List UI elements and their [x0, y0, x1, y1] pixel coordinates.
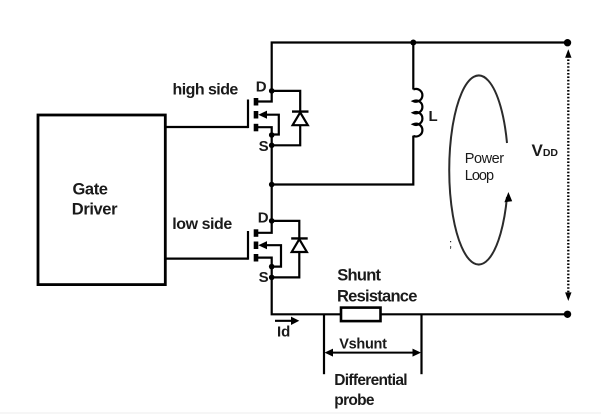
D1 triangle	[293, 112, 308, 125]
transistor Q1 (high side MOSFET)	[248, 79, 279, 155]
svg-text:D: D	[256, 79, 267, 96]
wire bottom rail right of shunt	[381, 313, 568, 315]
svg-text:Id: Id	[277, 324, 290, 341]
Q2 gate line	[247, 231, 249, 260]
svg-text:probe: probe	[334, 392, 375, 409]
Vshunt measurement ticks	[323, 314, 325, 374]
Q1 channel bar source	[254, 124, 259, 132]
wire D2 anode branch	[272, 252, 300, 277]
wire Q1 drain to channel	[258, 91, 272, 102]
node Q1 source	[269, 143, 275, 149]
diode D1 (Q1 body diode)	[272, 91, 309, 145]
Vshunt arrow	[325, 349, 422, 357]
node VDD+ terminal	[564, 39, 571, 46]
faint page edge line	[0, 412, 601, 414]
node Q1 drain	[269, 88, 275, 94]
svg-text:high side: high side	[173, 81, 239, 98]
node Q2 drain	[269, 218, 275, 224]
svg-text:Driver: Driver	[72, 201, 118, 219]
inductor L1	[413, 43, 422, 137]
wire Q2 body return	[266, 245, 281, 266]
Q2 channel bar body	[254, 242, 259, 250]
transistor Q2 (low side MOSFET)	[248, 209, 281, 286]
svg-text:Loop: Loop	[465, 168, 494, 184]
wire Q1 body return	[266, 115, 279, 135]
svg-text:Power: Power	[465, 151, 504, 167]
wire switch node vertical	[271, 145, 273, 221]
node top junction (inductor tap)	[410, 40, 416, 46]
Q1 gate line	[247, 100, 249, 129]
gate driver box U1	[38, 115, 165, 285]
resistor R shunt	[341, 308, 381, 322]
svg-text:S: S	[259, 138, 269, 155]
wire gate-driver to Q2 gate	[165, 258, 248, 260]
svg-text:Gate: Gate	[73, 181, 108, 199]
VDD measurement dotted line	[565, 49, 571, 301]
wire Q2 drain to channel	[258, 221, 272, 233]
Q2 body arrow	[258, 241, 267, 249]
svg-text:;: ;	[449, 239, 452, 251]
node VDD- terminal	[564, 311, 571, 318]
svg-text:VDD: VDD	[532, 141, 559, 160]
node Q2 source junction	[269, 264, 275, 270]
svg-text:Shunt: Shunt	[337, 267, 381, 285]
Q2 channel bar drain	[254, 229, 259, 237]
wire phase to inductor	[272, 136, 414, 185]
wire D2 cathode branch	[272, 221, 300, 239]
Q1 channel bar body	[254, 111, 259, 119]
svg-text:Vshunt: Vshunt	[339, 336, 387, 352]
wire Q2 source lead	[258, 258, 272, 278]
svg-text:S: S	[259, 269, 269, 286]
top rail wire	[272, 43, 567, 91]
wire Q1 source lead	[258, 127, 272, 145]
D2 triangle	[292, 239, 307, 252]
Q2 channel bar source	[254, 254, 259, 262]
D2 cathode bar	[291, 237, 308, 239]
svg-text:Resistance: Resistance	[337, 287, 417, 305]
diode D2 (Q2 body diode)	[272, 221, 308, 278]
node switch (phase)	[269, 182, 275, 188]
label Id current arrow	[275, 317, 299, 341]
Q1 body arrow	[258, 111, 267, 119]
svg-text:low side: low side	[172, 216, 232, 233]
wire gate-driver to Q1 gate	[165, 126, 248, 128]
svg-text:D: D	[258, 209, 269, 226]
svg-text:L: L	[429, 108, 438, 125]
wire D1 anode branch	[272, 125, 301, 145]
Q1 channel bar drain	[254, 98, 259, 106]
svg-text:Differential: Differential	[334, 372, 407, 389]
node Q2 source	[269, 275, 275, 281]
wire D1 cathode branch	[272, 91, 301, 112]
power loop arc	[449, 76, 512, 265]
D1 cathode bar	[292, 110, 309, 112]
node Q1 source junction	[269, 132, 275, 138]
bottom rail wire	[272, 277, 341, 314]
